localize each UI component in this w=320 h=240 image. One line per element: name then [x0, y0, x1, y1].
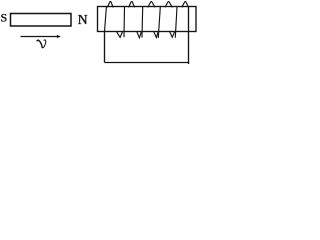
svg-text:N: N	[78, 12, 88, 27]
coil turn 5 top hump	[182, 1, 188, 7]
coil turn 4 bottom hump	[170, 32, 175, 37]
coil turn 2 top hump	[129, 1, 135, 7]
coil turn 3 front stroke	[141, 7, 144, 37]
coil turn 1 front stroke	[105, 7, 107, 32]
coil turn 3 top hump	[148, 1, 155, 7]
bottom circuit wire	[105, 62, 190, 64]
magnet body	[11, 14, 72, 27]
coil turn 1 bottom hump	[117, 32, 123, 38]
coil turn 1 top hump	[108, 1, 114, 7]
velocity arrow head	[57, 35, 61, 39]
coil frame (core rectangle)	[98, 7, 197, 32]
velocity arrow shaft	[21, 36, 60, 38]
coil turn 4 top hump	[165, 1, 172, 7]
coil turn 2 bottom hump	[137, 32, 141, 38]
right lead wire (down from coil to loop)	[188, 7, 190, 64]
velocity label v (italic)	[37, 40, 46, 48]
left lead wire (down from coil to loop)	[104, 32, 106, 63]
coil turn 4 front stroke	[158, 7, 160, 37]
coil turn 2 front stroke	[123, 7, 126, 37]
svg-text:S: S	[1, 11, 8, 25]
coil turn 3 bottom hump	[154, 32, 158, 38]
coil turn 5 front stroke	[175, 7, 177, 37]
